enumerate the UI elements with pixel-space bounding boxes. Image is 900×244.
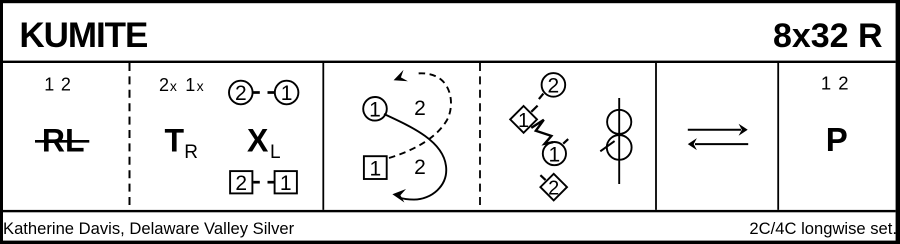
cell 4: allemande tick (600, 141, 614, 151)
cell 4: allemande circles top (607, 110, 631, 134)
cell 4: tick on diamond 2 (540, 175, 545, 180)
cell 5: progression arrow right (688, 129, 741, 131)
svg-text:L: L (270, 142, 281, 163)
cell 2: dancer circle 1 (woman) (275, 81, 299, 105)
cell 1: RL strike line (35, 140, 89, 143)
cell 3: dancer square 1 (364, 156, 387, 179)
svg-text:1 2: 1 2 (44, 75, 71, 95)
cell 2: dash joining circles (253, 91, 260, 94)
svg-text:2x: 2x (159, 75, 177, 95)
bar divider dashed x=129.5 (129, 63, 131, 210)
svg-text:P: P (826, 121, 848, 158)
svg-text:2: 2 (414, 97, 426, 120)
bar divider solid x=656 (655, 63, 657, 210)
cell 4: tick on circle 2 (539, 94, 544, 100)
svg-text:1x: 1x (185, 75, 203, 95)
cell 2: dancer circle 2 (woman) (229, 81, 253, 105)
header divider line (3, 61, 896, 63)
svg-text:1: 1 (369, 99, 381, 122)
svg-text:2: 2 (235, 172, 247, 195)
svg-text:X: X (247, 122, 269, 158)
svg-text:2C/4C longwise set.: 2C/4C longwise set. (749, 219, 897, 238)
svg-text:1: 1 (369, 157, 381, 180)
cell 4: allemande vertical line (618, 98, 620, 184)
svg-text:1: 1 (280, 172, 292, 195)
svg-text:KUMITE: KUMITE (19, 16, 147, 55)
cell 4: dancer diamond 1 (510, 106, 537, 133)
cell 3: dashed path arrowhead (394, 70, 408, 81)
svg-text:2: 2 (548, 75, 560, 98)
cell 4: dancer circle 2 top (542, 73, 566, 97)
cell 2: dash joining squares (253, 181, 260, 184)
footer divider line (3, 210, 896, 212)
bar divider solid x=778.2 (777, 63, 779, 210)
cell 5: progression arrow left (695, 143, 748, 145)
outer border right (896, 0, 900, 244)
cell 4: tick on circle 1 (563, 139, 568, 144)
cell 3: solid path arrowhead (392, 189, 406, 203)
svg-text:2: 2 (235, 82, 247, 105)
svg-text:1: 1 (518, 110, 529, 132)
outer border bottom (0, 241, 900, 244)
cell 3: dancer circle 1 (363, 97, 387, 121)
svg-text:R: R (184, 142, 198, 163)
bar divider solid x=323.3 (322, 63, 324, 210)
svg-text:2: 2 (548, 178, 559, 200)
bar divider dashed x=480 (479, 63, 481, 210)
outer border left (0, 0, 3, 244)
svg-text:1: 1 (549, 143, 561, 166)
cell 2: dancer square 2 (man) (230, 171, 252, 193)
svg-text:2: 2 (414, 156, 426, 179)
cell 4: tick on diamond 1 (531, 106, 537, 112)
cell 2: dancer square 1 (man) (275, 171, 297, 193)
cell 4: dancer circle 1 (543, 142, 566, 165)
cell 4: set-and-link zigzag (531, 120, 553, 144)
outer border top (0, 0, 900, 3)
cell 3: dashed path of square-1 dancer (389, 73, 451, 158)
svg-text:1 2: 1 2 (821, 72, 850, 93)
svg-text:1: 1 (281, 82, 293, 105)
cell 4: allemande circles bottom (607, 135, 632, 160)
cell 4: dancer diamond 2 (540, 174, 567, 201)
cell 3: solid path of circle-1 dancer (384, 114, 446, 200)
svg-text:T: T (165, 122, 185, 158)
svg-text:Katherine Davis, Delaware Vall: Katherine Davis, Delaware Valley Silver (3, 219, 295, 238)
svg-text:8x32 R: 8x32 R (773, 17, 883, 55)
